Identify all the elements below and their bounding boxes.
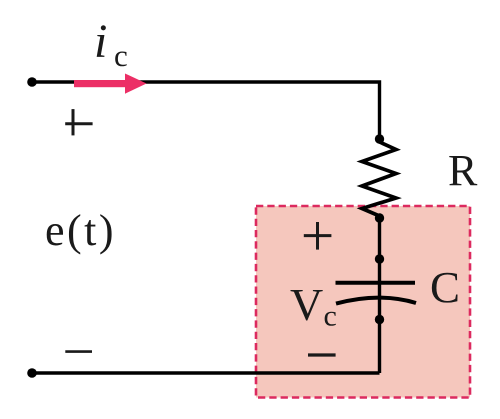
svg-text:i: i xyxy=(94,15,107,68)
svg-text:c: c xyxy=(114,38,128,73)
svg-text:c: c xyxy=(324,300,337,333)
svg-text:R: R xyxy=(448,146,478,195)
svg-text:V: V xyxy=(290,279,323,330)
svg-text:C: C xyxy=(430,263,460,312)
svg-text:e(t): e(t) xyxy=(45,206,116,255)
